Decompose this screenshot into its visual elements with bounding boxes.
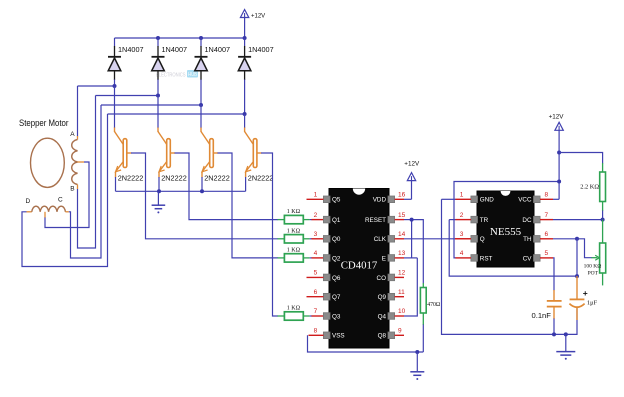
svg-text:DC: DC bbox=[522, 217, 532, 224]
svg-text:HUB: HUB bbox=[188, 72, 197, 78]
svg-text:POT: POT bbox=[588, 271, 599, 277]
U1 pin 4 Q2 bbox=[314, 250, 341, 262]
svg-text:2: 2 bbox=[314, 212, 318, 219]
svg-text:RESET: RESET bbox=[365, 217, 386, 224]
resistor R1 1 KΩ (pin 2) bbox=[278, 209, 324, 224]
wire D to T4 column bbox=[22, 114, 108, 267]
junction emitter bus T2 bbox=[157, 189, 161, 193]
svg-text:1 KΩ: 1 KΩ bbox=[287, 248, 301, 254]
svg-text:Stepper Motor: Stepper Motor bbox=[19, 117, 69, 128]
junction column1 bbox=[113, 84, 117, 88]
watermark bbox=[156, 70, 198, 78]
resistor R5 470Ω bbox=[420, 283, 440, 352]
svg-text:Q: Q bbox=[480, 236, 485, 243]
inductor winding A-B (vertical coil) bbox=[72, 86, 78, 189]
junction DC/2.2K/pot bbox=[601, 218, 605, 222]
svg-text:4: 4 bbox=[460, 250, 464, 257]
svg-text:VSS: VSS bbox=[332, 333, 345, 340]
svg-text:Q1: Q1 bbox=[332, 217, 341, 224]
wire +12V to U2 RST bbox=[454, 182, 559, 258]
svg-text:A: A bbox=[70, 131, 75, 138]
svg-text:4: 4 bbox=[314, 250, 318, 257]
U1 pin 6 Q7 bbox=[307, 289, 341, 301]
junction on rail at D2 bbox=[156, 36, 160, 40]
svg-text:1N4007: 1N4007 bbox=[248, 45, 274, 54]
svg-text:GND: GND bbox=[480, 197, 494, 204]
wire U2 DC to 2.2K/pot bbox=[553, 219, 603, 221]
U2 pin 5 CV bbox=[523, 250, 553, 262]
svg-text:11: 11 bbox=[398, 289, 405, 296]
U1 pin 1 Q5 bbox=[307, 192, 341, 204]
svg-text:12: 12 bbox=[398, 270, 406, 277]
wire coil-C link to column3 bbox=[101, 104, 201, 106]
junction +12V/RST bbox=[557, 180, 561, 184]
wire Q3 emitter to bus bbox=[201, 177, 203, 191]
+12V supply symbol (top rail) bbox=[240, 10, 265, 39]
junction ground bus U1 bbox=[415, 350, 419, 354]
junction column3 bbox=[199, 103, 203, 107]
svg-text:3: 3 bbox=[460, 231, 464, 238]
wire Q2 emitter to bus bbox=[158, 177, 160, 191]
U1 pin 8 VSS bbox=[314, 328, 345, 340]
wire Q1 base to resistor row bbox=[131, 153, 278, 239]
capacitor C1 0.1nF bbox=[532, 301, 562, 335]
svg-text:TH: TH bbox=[523, 236, 532, 243]
U1 pin 10 Q4 bbox=[378, 308, 406, 320]
junction on rail at D3 bbox=[199, 36, 203, 40]
U2 pin 4 RST bbox=[455, 250, 492, 262]
svg-text:2N2222: 2N2222 bbox=[118, 174, 144, 183]
junction column2 bbox=[156, 94, 160, 98]
U1 pin 13 E bbox=[382, 250, 406, 262]
U2 pin 1 GND bbox=[455, 192, 494, 204]
svg-text:Q9: Q9 bbox=[378, 294, 387, 301]
transistor Q3 2N2222 bbox=[201, 105, 230, 183]
svg-text:1 KΩ: 1 KΩ bbox=[287, 228, 301, 234]
diode D3 1N4007 bbox=[195, 38, 231, 105]
junction column4 bbox=[243, 112, 247, 116]
svg-text:5: 5 bbox=[314, 270, 318, 277]
resistor R3 1 KΩ (pin 4) bbox=[278, 248, 324, 263]
svg-text:ELECTRONICS: ELECTRONICS bbox=[156, 72, 186, 78]
svg-text:0.1nF: 0.1nF bbox=[532, 311, 552, 320]
svg-text:RST: RST bbox=[480, 255, 493, 262]
svg-text:2N2222: 2N2222 bbox=[248, 174, 274, 183]
ground (U1/470 ohm) bbox=[410, 352, 424, 380]
U1 pin 3 Q0 bbox=[314, 231, 341, 243]
wire C to T3 column bbox=[69, 105, 101, 258]
wire U2 TR to timing cap bbox=[449, 220, 577, 277]
svg-text:Q0: Q0 bbox=[332, 236, 341, 243]
svg-text:5: 5 bbox=[545, 250, 549, 257]
svg-text:Q6: Q6 bbox=[332, 275, 341, 282]
svg-text:10: 10 bbox=[398, 308, 406, 315]
svg-text:CV: CV bbox=[523, 255, 533, 262]
U1 pin 7 Q3 bbox=[314, 308, 341, 320]
wire U2 CV to 0.1nF bbox=[553, 258, 554, 300]
diode D2 1N4007 bbox=[152, 38, 188, 96]
wire U1 VSS to ground bus bbox=[308, 335, 424, 352]
junction TH bbox=[575, 237, 579, 241]
svg-text:Q3: Q3 bbox=[332, 313, 341, 320]
wire U2 TH node bbox=[553, 238, 577, 240]
node B label bbox=[70, 185, 74, 192]
svg-text:1μF: 1μF bbox=[587, 300, 598, 307]
junction ground bus/ground bbox=[564, 332, 568, 336]
stepper motor label bbox=[19, 117, 69, 128]
svg-text:2: 2 bbox=[460, 212, 464, 219]
node A label bbox=[70, 131, 75, 138]
svg-text:D: D bbox=[26, 198, 31, 205]
U1 pin 14 CLK bbox=[374, 231, 406, 243]
svg-text:1: 1 bbox=[460, 192, 464, 199]
svg-text:CLK: CLK bbox=[374, 236, 387, 243]
U2 pin 2 TR bbox=[455, 212, 488, 224]
stepper motor body bbox=[31, 138, 65, 187]
wire emitter bus bbox=[116, 190, 246, 192]
U1 pin 16 VDD bbox=[373, 192, 406, 204]
svg-text:15: 15 bbox=[398, 212, 406, 219]
wire Q4 base to resistor row bbox=[261, 153, 278, 316]
inductor winding D-C (horizontal coil) bbox=[27, 206, 69, 212]
wire A-B center tap bbox=[45, 162, 89, 228]
U1 pin 9 Q8 bbox=[378, 328, 404, 340]
wire U1 RESET to 470 ohm / E bbox=[404, 220, 423, 284]
svg-text:1N4007: 1N4007 bbox=[205, 45, 231, 54]
svg-text:1N4007: 1N4007 bbox=[162, 45, 188, 54]
svg-text:Q5: Q5 bbox=[332, 197, 341, 204]
svg-text:Q2: Q2 bbox=[332, 255, 341, 262]
U1 pin 5 Q6 bbox=[307, 270, 341, 282]
U1 pin 12 CO bbox=[377, 270, 406, 282]
svg-text:9: 9 bbox=[398, 328, 402, 335]
U2 pin 6 TH bbox=[523, 231, 553, 243]
ground (transistor emitters) bbox=[152, 191, 166, 213]
svg-text:7: 7 bbox=[314, 308, 318, 315]
junction emitter bus T3 bbox=[200, 189, 204, 193]
node D label bbox=[26, 198, 31, 205]
svg-text:+12V: +12V bbox=[549, 114, 565, 121]
svg-text:+12V: +12V bbox=[251, 13, 265, 19]
wire TH to timing cap bbox=[576, 239, 578, 276]
svg-text:VDD: VDD bbox=[373, 197, 387, 204]
wire U1 E to U1 Q4 bbox=[404, 258, 417, 316]
U1 pin 2 Q1 bbox=[314, 212, 341, 224]
wire +12V top rail bbox=[115, 37, 245, 39]
+12V supply symbol (U1 VDD) bbox=[404, 161, 420, 200]
U1 pin 15 RESET bbox=[365, 212, 406, 224]
wire U1 CLK to U2 Q bbox=[404, 238, 471, 240]
wire Q4 emitter to bus bbox=[245, 177, 247, 191]
resistor R2 1 KΩ (pin 3) bbox=[278, 228, 324, 243]
svg-text:14: 14 bbox=[398, 231, 406, 238]
svg-text:16: 16 bbox=[398, 192, 406, 199]
wire Q3 base to resistor row bbox=[218, 153, 278, 258]
svg-text:TR: TR bbox=[480, 217, 489, 224]
wire coil-A to column1 bbox=[78, 85, 115, 87]
transistor Q2 2N2222 bbox=[158, 96, 187, 183]
svg-text:2N2222: 2N2222 bbox=[161, 174, 187, 183]
svg-text:6: 6 bbox=[545, 231, 549, 238]
resistor R4 1 KΩ (pin 7) bbox=[278, 306, 324, 321]
svg-text:13: 13 bbox=[398, 250, 406, 257]
op-amp U2 NE555 body bbox=[477, 191, 534, 267]
resistor R6 2.2 KΩ bbox=[559, 153, 605, 220]
capacitor C2 1μF (polarized) bbox=[569, 276, 597, 320]
svg-text:2N2222: 2N2222 bbox=[204, 174, 230, 183]
potentiometer 100 KΩ POT bbox=[577, 220, 606, 286]
U2 pin 8 VCC bbox=[518, 192, 553, 204]
junction RESET net bbox=[410, 218, 414, 222]
U2 pin 3 Q bbox=[455, 231, 485, 243]
junction 0.1nF/ground bus bbox=[552, 332, 556, 336]
transistor Q1 2N2222 bbox=[115, 86, 144, 183]
svg-text:7: 7 bbox=[545, 212, 549, 219]
junction +12V/2.2K bbox=[557, 151, 561, 155]
diode D4 1N4007 bbox=[238, 38, 274, 114]
U2 pin 7 DC bbox=[522, 212, 553, 224]
node C label bbox=[58, 197, 63, 204]
svg-text:470Ω: 470Ω bbox=[427, 302, 441, 308]
transistor Q4 2N2222 bbox=[245, 114, 274, 183]
svg-text:B: B bbox=[70, 185, 74, 192]
svg-text:Q7: Q7 bbox=[332, 294, 341, 301]
svg-text:8: 8 bbox=[545, 192, 549, 199]
svg-text:CO: CO bbox=[377, 275, 387, 282]
wire coil-B link to column2 bbox=[96, 95, 159, 97]
+12V supply symbol (U2 VCC) bbox=[549, 114, 565, 200]
ground (U2/caps) bbox=[556, 334, 575, 359]
wire coil-D link to column4 bbox=[108, 113, 245, 115]
svg-text:CD4017: CD4017 bbox=[341, 260, 378, 272]
svg-text:1 KΩ: 1 KΩ bbox=[287, 209, 301, 215]
svg-text:2.2 KΩ: 2.2 KΩ bbox=[580, 183, 599, 190]
svg-text:100 KΩ: 100 KΩ bbox=[584, 263, 602, 269]
svg-text:C: C bbox=[58, 197, 63, 204]
svg-text:8: 8 bbox=[314, 328, 318, 335]
op-amp U1 CD4017 body bbox=[329, 189, 389, 349]
svg-text:E: E bbox=[382, 255, 386, 262]
svg-text:Q8: Q8 bbox=[378, 333, 387, 340]
svg-text:3: 3 bbox=[314, 231, 318, 238]
wire Q1 emitter to bus bbox=[115, 177, 117, 191]
svg-text:NE555: NE555 bbox=[490, 226, 522, 238]
svg-text:1: 1 bbox=[314, 192, 318, 199]
U1 pin 11 Q9 bbox=[378, 289, 406, 301]
svg-text:6: 6 bbox=[314, 289, 318, 296]
svg-text:1N4007: 1N4007 bbox=[118, 45, 144, 54]
junction on rail at D4 / +12V riser bbox=[243, 36, 247, 40]
svg-text:+12V: +12V bbox=[404, 161, 420, 168]
svg-text:VCC: VCC bbox=[518, 197, 532, 204]
svg-text:Q4: Q4 bbox=[378, 313, 387, 320]
wire Q2 base to resistor row bbox=[175, 153, 278, 220]
svg-text:+: + bbox=[583, 288, 588, 298]
wire U2 GND to ground bus bbox=[442, 199, 578, 334]
junction timing cap bbox=[575, 274, 579, 278]
svg-text:1 KΩ: 1 KΩ bbox=[287, 306, 301, 312]
wire B to T2 column bbox=[78, 96, 96, 249]
diode D1 1N4007 bbox=[108, 38, 144, 86]
